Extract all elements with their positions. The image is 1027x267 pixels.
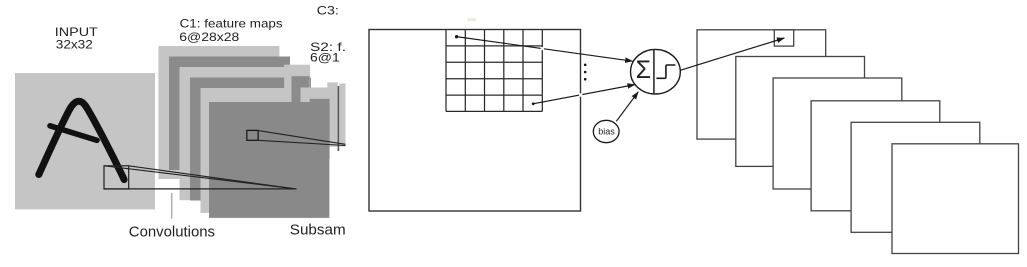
S2 map sliver column left of front edge <box>327 82 337 146</box>
projection line from C1 box top-right to S2 <box>258 131 347 145</box>
receptive field box on input <box>104 166 129 189</box>
projection line from C1 box bottom-right to S2 <box>258 140 347 145</box>
receptive grid 5x5 horizontals <box>446 46 542 112</box>
synapse line from grid cell (5,5) to sigma unit <box>533 85 635 104</box>
C1 feature map 4 (dark) <box>190 78 311 201</box>
handwritten A: left leg and right leg <box>39 101 124 179</box>
white crossing notch on grid edge <box>541 47 544 50</box>
projection line from box top-right corner to point on C1 <box>129 166 295 189</box>
vertical ellipsis dots <box>584 64 587 67</box>
S2 front map left edge line <box>338 86 340 151</box>
svg-text:Convolutions: Convolutions <box>129 224 215 241</box>
projection line along box bottom to point on C1 <box>104 188 297 190</box>
neuron divider line <box>653 50 655 94</box>
S2 feature map stack peek 3 (light) <box>301 88 330 148</box>
S2 feature map stack peek 1 (light) <box>284 65 310 125</box>
C1 feature map 2 (dark) <box>169 57 290 171</box>
handwritten A: crossbar <box>50 126 97 141</box>
svg-text:Subsampling: Subsampling <box>290 222 378 239</box>
output arrow from neuron to feature map cell <box>681 38 785 70</box>
synapse start dot <box>455 35 458 38</box>
C1 feature map 5 (light) <box>201 88 322 213</box>
svg-text:C3:: C3: <box>317 3 339 17</box>
bias connection line <box>616 92 638 122</box>
output map 4 <box>811 101 940 211</box>
S2 feature map stack peek 2 (dark) <box>292 76 310 136</box>
synapse line from grid cell (1,1) to sigma unit <box>456 37 632 62</box>
svg-text:6@1: 6@1 <box>310 50 340 64</box>
unit cell box on map 1 <box>774 30 793 46</box>
output map 2 <box>736 57 865 167</box>
input plane big square <box>369 30 581 212</box>
S2 feature map stack peek 4 (dark) <box>310 99 330 159</box>
synapse start dot 2 <box>532 102 535 105</box>
receptive field box on C1 front map <box>247 130 258 140</box>
tick line between input and C1 <box>171 193 173 219</box>
C1 feature map 1 (light) <box>158 46 279 179</box>
INPUT plane 32x32 <box>15 73 155 209</box>
S2 front map sliver right of C1 <box>339 84 346 147</box>
receptive grid 5x5 verticals <box>446 30 542 112</box>
output map 5 <box>851 122 980 232</box>
svg-text:bias: bias <box>598 126 615 136</box>
output map 1 (back) <box>697 30 826 139</box>
white crossing notch on square edge <box>579 93 582 96</box>
svg-text:6@28x28: 6@28x28 <box>179 30 239 44</box>
C1 front feature map 6 (dark) <box>209 102 329 218</box>
projection line from box top-left corner to point on C1 <box>104 166 295 189</box>
step activation symbol <box>656 65 675 78</box>
output map 3 <box>773 78 902 189</box>
svg-text:32x32: 32x32 <box>56 37 93 51</box>
svg-text:Σ: Σ <box>636 56 651 84</box>
bias unit circle <box>593 120 619 142</box>
output map 6 (front) <box>892 144 1019 254</box>
faint smudge artifact <box>467 18 476 21</box>
neuron body circle <box>631 49 681 94</box>
svg-text:C1: feature maps: C1: feature maps <box>180 16 283 30</box>
C1 feature map 3 (light) <box>180 67 301 200</box>
